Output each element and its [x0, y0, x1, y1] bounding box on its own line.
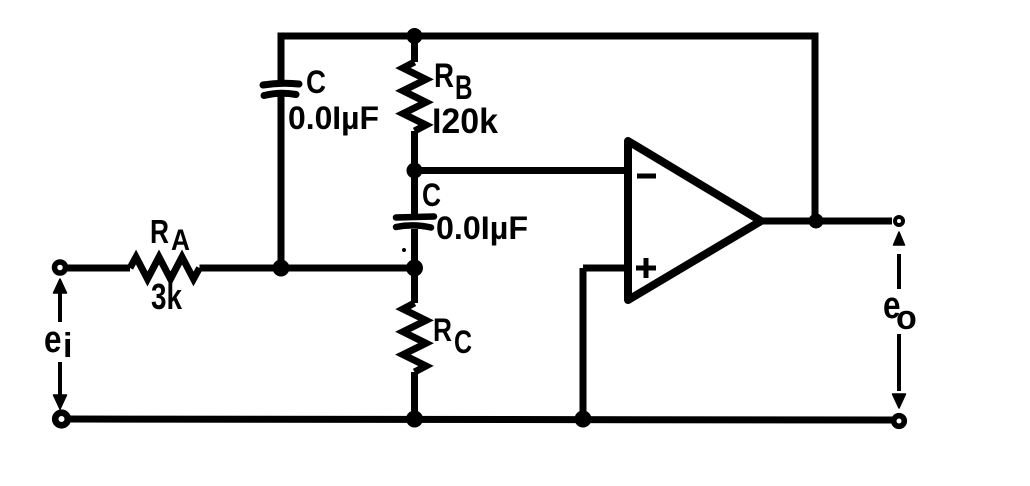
op-amp plus sign [636, 258, 656, 278]
svg-text:0.0IµF: 0.0IµF [288, 100, 379, 136]
wire noninverting input vertical [580, 268, 587, 419]
op-amp minus sign [637, 174, 656, 179]
svg-text:A: A [171, 224, 190, 257]
wire RB lead top [411, 36, 418, 62]
terminal input bottom [55, 413, 68, 426]
stray dot [402, 248, 406, 252]
wire middle capacitor branch lower [411, 229, 418, 268]
resistor RA [130, 257, 200, 279]
svg-text:R: R [433, 312, 452, 348]
svg-text:I20k: I20k [432, 102, 499, 141]
arrow eo down [897, 334, 901, 391]
arrow eo up [897, 254, 901, 289]
terminal output top [895, 217, 903, 225]
resistor RC [403, 303, 426, 372]
arrow ei up [58, 293, 62, 322]
junction plus wire bottom [575, 411, 592, 428]
junction RC bottom [406, 411, 423, 428]
wire input to main node [200, 265, 415, 272]
svg-text:i: i [63, 327, 72, 365]
svg-text:R: R [150, 213, 169, 250]
op-amp U1 [628, 141, 761, 300]
svg-text:C: C [454, 324, 472, 360]
svg-text:3k: 3k [151, 276, 183, 317]
resistor RB [403, 62, 426, 131]
capacitor C2 top plate [396, 217, 434, 218]
terminal input top [55, 262, 66, 273]
wire middle capacitor branch upper [411, 171, 418, 215]
arrow ei down [58, 362, 62, 396]
terminal output bottom [894, 416, 905, 427]
wire bottom horizontal [66, 419, 893, 420]
wire top horizontal + feedback right vertical + left capacitor branch upper [281, 36, 815, 221]
junction main node [406, 260, 423, 277]
capacitor C1 top plate [263, 83, 299, 85]
svg-text:R: R [434, 57, 454, 95]
junction output node [809, 214, 824, 229]
svg-text:C: C [306, 64, 326, 100]
capacitor C2 bottom plate [396, 225, 431, 227]
svg-text:e: e [44, 319, 62, 361]
junction RB top [407, 28, 423, 44]
wire left capacitor branch lower [278, 96, 285, 268]
junction left cap / input wire [273, 260, 290, 277]
svg-text:o: o [896, 299, 917, 337]
svg-text:0.0IµF: 0.0IµF [436, 210, 528, 246]
wire inverting input [415, 167, 628, 174]
wire RC lead top [411, 268, 418, 303]
capacitor C1 bottom plate [264, 93, 296, 95]
wire input left segment [66, 265, 130, 272]
wire op-amp output [762, 218, 892, 225]
wire RB lead bottom [411, 131, 418, 171]
svg-text:C: C [422, 177, 441, 213]
wire noninverting input horizontal [583, 265, 627, 272]
junction inverting node [407, 163, 423, 179]
wire RC lead bottom [411, 372, 418, 419]
